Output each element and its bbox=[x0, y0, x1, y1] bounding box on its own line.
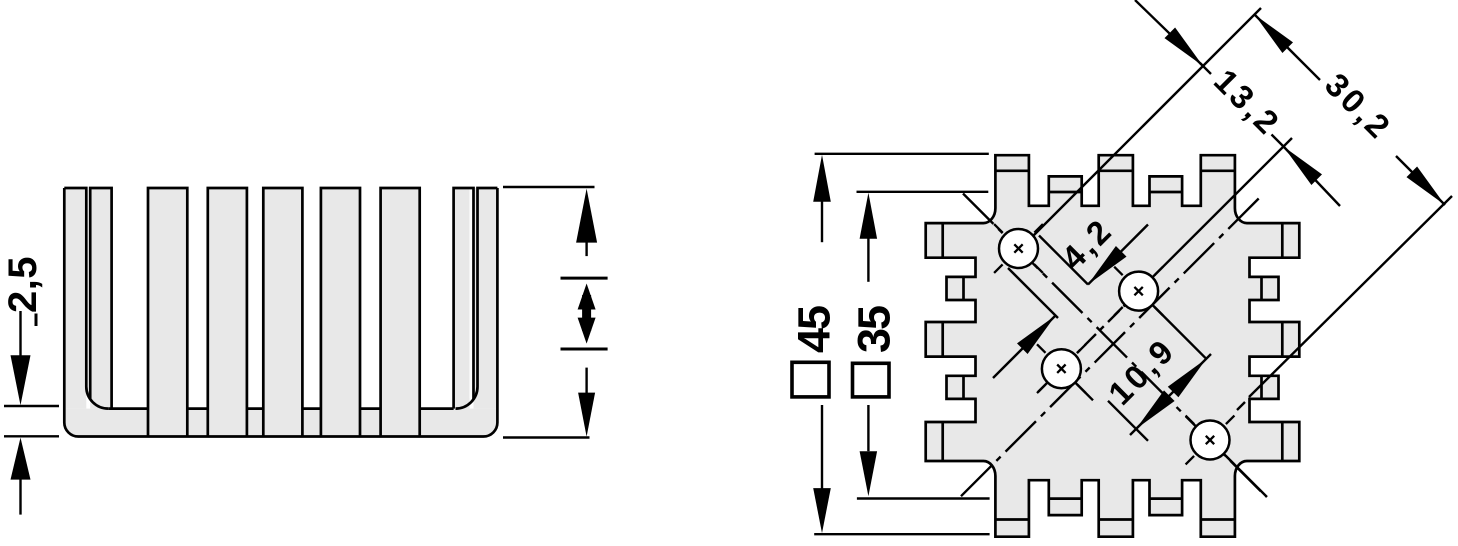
svg-text:45: 45 bbox=[789, 306, 840, 353]
dimension 13,2 lower arrow with shaft bbox=[1284, 147, 1323, 186]
dimension 45 line with arrows bbox=[813, 155, 831, 202]
tab inner lines right edge bbox=[1281, 223, 1284, 258]
height dim bottom extension line bbox=[503, 436, 590, 438]
dimension 2,5 lower arrow bbox=[11, 438, 31, 480]
outer profile outline bbox=[64, 188, 497, 437]
tab inner lines top edge bbox=[995, 169, 1029, 172]
dimension 4,2 upper arrow with shaft bbox=[1088, 246, 1127, 285]
height dim lower arrow bbox=[585, 368, 587, 395]
tick line at base top bbox=[4, 405, 59, 407]
base floor line segments bbox=[108, 407, 148, 410]
right outer wall top and inner edge bbox=[456, 188, 498, 409]
dimension 35 line with arrows bbox=[860, 193, 878, 239]
height dim double arrow bbox=[578, 284, 596, 310]
dimension line 10,9 bbox=[1130, 354, 1211, 435]
right inner wall bbox=[454, 188, 474, 409]
dimension 35 bottom extension line bbox=[857, 497, 990, 499]
extension line from hole 2 (SE) bbox=[1152, 305, 1206, 359]
height dim tick upper bbox=[561, 277, 608, 280]
dimension 45 square symbol bbox=[792, 362, 829, 397]
height dim tick lower bbox=[561, 348, 608, 351]
extension line from hole 3 (SE) bbox=[1075, 383, 1093, 401]
centerline through holes 2 and 3 bbox=[1038, 275, 1155, 392]
hole 1 bbox=[999, 229, 1038, 268]
dimension 2,5 leader line bbox=[19, 311, 21, 357]
dimension line 13,2 (broken at text) bbox=[1200, 63, 1211, 74]
height dim top extension line bbox=[503, 186, 595, 188]
fins outlines bbox=[148, 188, 187, 437]
dimension 45 top extension line bbox=[815, 153, 989, 155]
dimension 13,2 upper arrow with shaft bbox=[1165, 28, 1204, 67]
height dim upper arrow bbox=[576, 189, 597, 243]
centerline diagonal B (BL to TR) bbox=[961, 197, 1260, 496]
extension line from holes 2-3 (NE) bbox=[1152, 138, 1292, 277]
svg-text:2,5: 2,5 bbox=[1, 256, 45, 313]
dimension 35 square symbol bbox=[853, 363, 890, 397]
centerline diagonal A (TL to BR) bbox=[963, 194, 1266, 497]
hole 2 bbox=[1119, 272, 1158, 311]
tab inner lines bottom edge bbox=[995, 518, 1029, 521]
dimension 35 top extension line bbox=[857, 191, 989, 193]
left inner wall bbox=[90, 188, 111, 409]
top-view body outline bbox=[926, 155, 1300, 537]
fin and wall fills bbox=[64, 188, 86, 409]
tab inner lines left edge bbox=[941, 223, 944, 258]
dimension 2,5 dash after text bbox=[35, 314, 38, 327]
hole 1 tangent line lower bbox=[1008, 268, 1058, 318]
hole 1 tangent line upper bbox=[1039, 236, 1088, 285]
slot between left wall pair bbox=[86, 189, 90, 398]
slot between right wall pair bbox=[470, 189, 474, 398]
svg-text:35: 35 bbox=[849, 306, 900, 353]
tick line at base bottom bbox=[4, 435, 59, 437]
extension line from hole 1 (NE) bbox=[1033, 8, 1261, 236]
dimension 45 bottom extension line bbox=[814, 533, 989, 535]
heatsink base slab bbox=[64, 409, 497, 437]
left outer wall top and inner edge bbox=[64, 188, 108, 409]
extension line from hole 4 (NE) bbox=[1237, 402, 1245, 410]
extension line for 10,9 lower end bbox=[1108, 401, 1148, 441]
dimension 2,5 upper arrow bbox=[11, 355, 31, 405]
dimension 4,2 lower arrow with shaft bbox=[1017, 316, 1056, 355]
hole 3 bbox=[1042, 349, 1081, 388]
hole 4 bbox=[1191, 421, 1230, 460]
dimension line 30,2 (broken at text) bbox=[1255, 15, 1321, 81]
